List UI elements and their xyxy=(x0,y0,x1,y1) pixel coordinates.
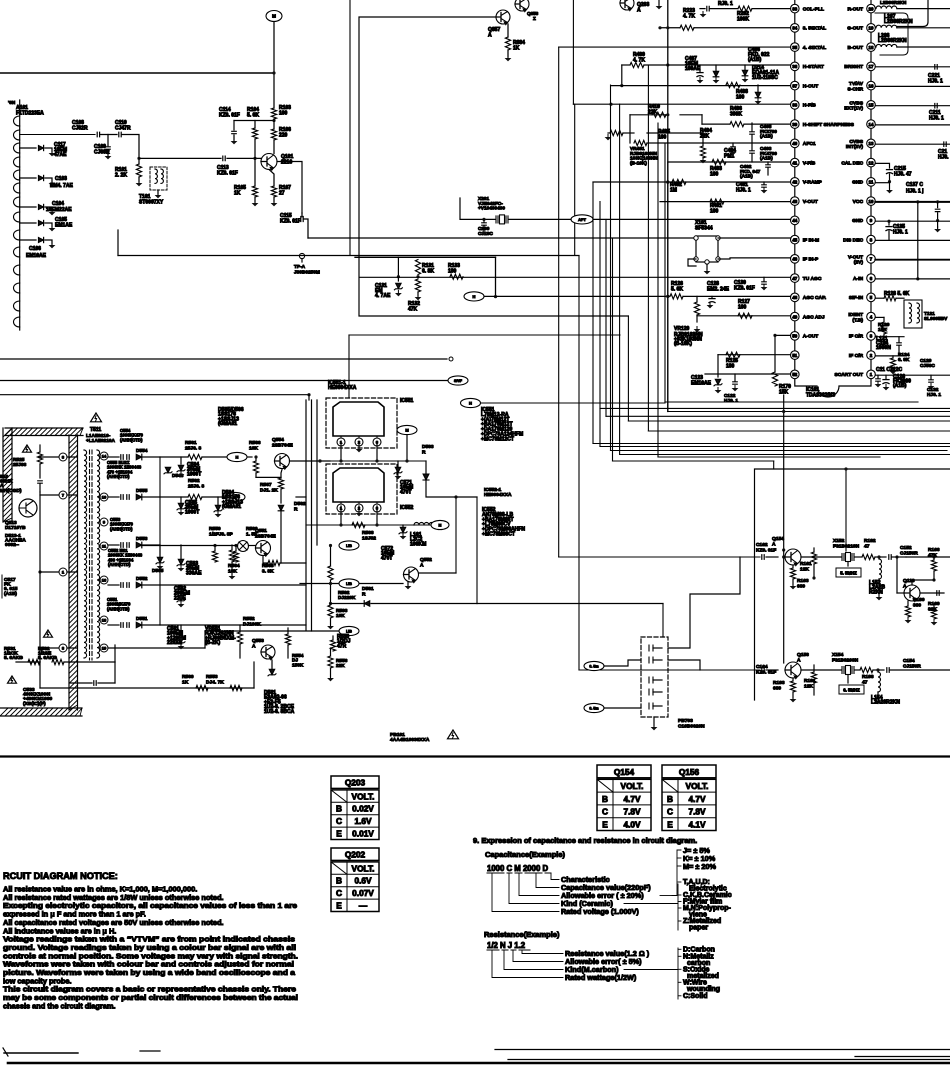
transistor Q858 xyxy=(515,0,529,11)
tuner pin 2 xyxy=(14,130,20,140)
tuner pin 7 xyxy=(14,197,20,207)
svg-text:HE0004XXA: HE0004XXA xyxy=(484,492,512,498)
svg-text:L2B98R2KN: L2B98R2KN xyxy=(884,19,913,25)
svg-text:C10B0020N: C10B0020N xyxy=(678,723,705,729)
svg-text:40: 40 xyxy=(792,141,797,146)
svg-text:D551: D551 xyxy=(136,616,148,622)
svg-text:TP-A: TP-A xyxy=(294,264,306,270)
svg-text:14: 14 xyxy=(102,454,107,459)
voltage regulator IC551 xyxy=(326,398,397,448)
svg-text:B: B xyxy=(667,794,673,804)
svg-text:IF C/R: IF C/R xyxy=(849,334,864,340)
svg-text:D:Carbon: D:Carbon xyxy=(683,947,715,954)
svg-text:100: 100 xyxy=(736,95,745,101)
wire PB703 to C164 xyxy=(668,660,700,670)
tuner pin 3 xyxy=(14,143,20,153)
svg-text:(A1B): (A1B) xyxy=(4,591,17,597)
svg-text:H-SHIFT SHARPNESS: H-SHIFT SHARPNESS xyxy=(803,122,855,128)
IC101 pin 48 AGC CAP. xyxy=(791,293,800,302)
capacitor C122 xyxy=(733,382,738,384)
svg-text:B-OUT: B-OUT xyxy=(848,45,863,51)
transformer pins left xyxy=(40,456,59,458)
IC101 pin 5 SIF-IN xyxy=(867,293,876,302)
svg-text:100: 100 xyxy=(738,305,747,311)
svg-text:L2B98R2KN: L2B98R2KN xyxy=(878,38,907,44)
svg-text:(AHH(CTD): (AHH(CTD) xyxy=(107,474,130,479)
wire H-START row xyxy=(622,64,630,66)
warning triangle PB101 xyxy=(448,730,459,739)
svg-text:X154: X154 xyxy=(832,652,844,658)
svg-text:R: R xyxy=(422,449,426,455)
svg-text:LIB: LIB xyxy=(346,630,352,634)
connector oval M2 xyxy=(397,425,417,434)
legend line Characteristic xyxy=(551,874,559,880)
svg-text:C:Solid: C:Solid xyxy=(683,993,708,1000)
svg-text:4. 43XTAL: 4. 43XTAL xyxy=(803,45,826,51)
diode row C117 xyxy=(20,147,36,149)
svg-text:100: 100 xyxy=(710,209,719,215)
svg-text:1U2-118SC: 1U2-118SC xyxy=(752,75,778,81)
transformer T511 windings xyxy=(84,450,87,658)
wire AFC1 row xyxy=(647,142,703,144)
tuner A101 connector rail xyxy=(19,100,21,330)
svg-text:390K: 390K xyxy=(730,112,742,118)
svg-text:CJ56C: CJ56C xyxy=(920,363,935,369)
svg-text:'0N: '0N xyxy=(8,100,16,106)
svg-text:LIB: LIB xyxy=(346,544,352,548)
svg-text:PB703: PB703 xyxy=(678,718,693,724)
wire TV/AV pin16 xyxy=(875,85,950,87)
svg-text:1K: 1K xyxy=(182,679,189,685)
svg-text:R166: R166 xyxy=(928,547,940,553)
wire to Q552 xyxy=(476,497,478,604)
svg-text:TDA8362/N3: TDA8362/N3 xyxy=(806,393,835,399)
op-amp U1 / IC101 TDA8362 body rails xyxy=(794,0,796,375)
svg-text:CAL DEC: CAL DEC xyxy=(841,160,863,166)
diode row C104 xyxy=(20,206,36,208)
svg-text:Q202: Q202 xyxy=(345,849,366,859)
svg-text:17: 17 xyxy=(869,64,874,69)
svg-text:180: 180 xyxy=(726,364,735,370)
svg-text:25J68: 25J68 xyxy=(13,462,27,468)
svg-text:B: B xyxy=(336,804,342,814)
wire Q101 base row xyxy=(139,157,221,159)
svg-text:10: 10 xyxy=(869,199,874,204)
transistor Q553 xyxy=(261,645,275,659)
capacitor C572 xyxy=(400,527,406,533)
wire crystal feed xyxy=(845,469,847,551)
svg-text:0.6V: 0.6V xyxy=(354,876,372,886)
IC101 pin 17 BRIGHT xyxy=(867,62,876,71)
wire V-OUT pin7 xyxy=(875,259,950,261)
tuner pin 12 xyxy=(14,283,20,293)
IC101 pin 51 xyxy=(791,351,800,360)
svg-text:R193: R193 xyxy=(773,680,785,686)
wire TP-A line xyxy=(118,255,579,257)
svg-text:IC552: IC552 xyxy=(400,505,414,511)
svg-text:COL-PLL: COL-PLL xyxy=(803,6,824,12)
inductor L154 xyxy=(878,672,881,692)
svg-text:R198: R198 xyxy=(862,674,874,680)
wire y359 end oval xyxy=(449,357,453,361)
svg-text:A: A xyxy=(637,8,641,14)
svg-text:0.02V: 0.02V xyxy=(352,804,374,814)
svg-text:R552: R552 xyxy=(243,616,255,622)
svg-text:CJ150R: CJ150R xyxy=(900,550,918,556)
wire A-IN pin6 xyxy=(875,278,950,280)
IC101 pin 41 V-F/B xyxy=(791,158,800,167)
transistor Q101 xyxy=(261,154,277,170)
voltage table Q154 xyxy=(597,765,651,778)
svg-text:BRIGHT: BRIGHT xyxy=(844,64,863,70)
svg-text:Rated voltage (1.000V): Rated voltage (1.000V) xyxy=(561,907,639,916)
svg-text:47: 47 xyxy=(792,276,797,281)
potentiometer VR120 xyxy=(696,296,698,302)
svg-text:DJ1. 2K: DJ1. 2K xyxy=(260,487,278,493)
svg-text:49: 49 xyxy=(792,314,797,319)
svg-text:R2KN: R2KN xyxy=(869,589,883,595)
svg-text:45: 45 xyxy=(792,237,797,242)
isolation barrier hatched bottom xyxy=(0,708,82,716)
wire bus corner down to sound box xyxy=(773,461,775,469)
svg-text:F31B0200N: F31B0200N xyxy=(832,657,859,663)
svg-text:MH(CGD): MH(CGD) xyxy=(0,488,22,494)
isolation barrier hatched top xyxy=(5,428,83,436)
svg-text:4AA4B10636XXA: 4AA4B10636XXA xyxy=(390,737,430,743)
svg-text:Q154: Q154 xyxy=(614,767,635,777)
svg-text:51: 51 xyxy=(792,353,797,358)
svg-text:RCUIT DIAGRAM NOTICE:: RCUIT DIAGRAM NOTICE: xyxy=(3,871,118,881)
wire SIF-IN pin5 resistor R128 xyxy=(875,297,884,299)
svg-text:EM2. 24E: EM2. 24E xyxy=(707,287,730,293)
svg-text:7.8V: 7.8V xyxy=(688,807,706,817)
svg-text:20: 20 xyxy=(869,6,874,11)
svg-text:(B-10K): (B-10K) xyxy=(630,160,647,166)
svg-text:CVBS: CVBS xyxy=(849,100,863,106)
legend line Capacitance value(220pF) xyxy=(536,874,559,888)
warning triangle bottom left xyxy=(8,676,17,683)
svg-text:47K: 47K xyxy=(928,552,937,558)
svg-text:48: 48 xyxy=(792,295,797,300)
IC101 pin 10 VCC xyxy=(867,197,876,206)
IC101 pin 6 A-IN xyxy=(867,274,876,283)
svg-text:22K: 22K xyxy=(700,134,710,140)
svg-text:A: A xyxy=(420,562,424,568)
wire sound box xyxy=(755,469,950,700)
svg-text:1U2-6. 8BCA: 1U2-6. 8BCA xyxy=(264,709,295,715)
resistor R131 xyxy=(415,260,420,275)
isolation barrier hatched left xyxy=(3,428,12,522)
svg-text:EXT(1V): EXT(1V) xyxy=(844,106,863,112)
svg-text:50: 50 xyxy=(792,334,797,339)
svg-text:(2V): (2V) xyxy=(854,260,864,266)
wire C131 top xyxy=(355,256,496,258)
wire bus horizontals right xyxy=(665,401,918,403)
svg-text:27: 27 xyxy=(279,191,285,197)
svg-text:C: C xyxy=(667,807,673,817)
svg-text:44: 44 xyxy=(792,218,797,223)
svg-text:R: R xyxy=(294,506,298,512)
wire H-OUT row xyxy=(611,85,791,87)
svg-text:Q113: Q113 xyxy=(903,578,915,584)
warning triangle small left xyxy=(23,445,32,452)
IC101 pin 34 3. 58XTAL xyxy=(791,24,800,33)
svg-text:(T.B): (T.B) xyxy=(852,317,863,323)
svg-text:1K: 1K xyxy=(513,46,520,52)
svg-text:38: 38 xyxy=(792,103,797,108)
svg-text:+V10400400: +V10400400 xyxy=(478,206,505,212)
svg-text:1M: 1M xyxy=(670,188,677,194)
connector oval H2 xyxy=(461,398,481,407)
svg-text:D565: D565 xyxy=(152,568,164,574)
svg-text:390: 390 xyxy=(913,602,921,608)
wire coil frame corner xyxy=(897,0,928,27)
svg-text:+MC78M12CT: +MC78M12CT xyxy=(481,436,515,442)
IC101 bottom edge with notch xyxy=(795,375,871,398)
svg-text:IDENT: IDENT xyxy=(848,312,863,318)
svg-text:1000T: 1000T xyxy=(187,471,202,477)
svg-text:10: 10 xyxy=(102,495,107,500)
svg-text:1/2 N J 1.2: 1/2 N J 1.2 xyxy=(487,941,526,950)
svg-text:5. 6K: 5. 6K xyxy=(247,113,259,119)
IC101 pin 37 H-OUT xyxy=(791,81,800,90)
connector AFT xyxy=(571,215,593,224)
svg-text:R564: R564 xyxy=(228,563,240,569)
IC101 pin 50 A-OUT xyxy=(791,332,800,341)
wire vertical x573 xyxy=(572,0,574,104)
svg-text:2SB764E: 2SB764E xyxy=(272,442,294,448)
svg-text:4. 7K: 4. 7K xyxy=(633,58,645,64)
resistor R132 xyxy=(415,279,420,292)
svg-text:16: 16 xyxy=(102,578,107,583)
svg-text:HJ0. 47: HJ0. 47 xyxy=(894,172,912,178)
svg-text:(AHH(CTD): (AHH(CTD) xyxy=(120,437,143,442)
bottom main line xyxy=(8,1062,950,1065)
wire vertical x350 xyxy=(349,0,351,256)
svg-text:VOLT.: VOLT. xyxy=(352,791,375,801)
tuner pin 4 xyxy=(14,157,20,167)
tuner pin 9 xyxy=(14,230,20,240)
svg-text:HJ0. 1: HJ0. 1 xyxy=(736,188,751,194)
diode D565b xyxy=(157,557,163,563)
IC101 pin 15 CVBS EXT(1V) xyxy=(867,101,876,110)
wire row 585 xyxy=(160,584,306,586)
svg-text:100: 100 xyxy=(710,172,719,178)
svg-text:(B-10K): (B-10K) xyxy=(674,341,692,347)
connector oval H3 xyxy=(227,452,247,461)
svg-text:A-OUT: A-OUT xyxy=(803,334,818,340)
svg-text:19: 19 xyxy=(102,646,107,651)
svg-text:3. 58XTAL: 3. 58XTAL xyxy=(803,26,826,32)
svg-text:E: E xyxy=(336,901,342,911)
svg-text:IC551: IC551 xyxy=(400,398,414,404)
svg-text:C152: C152 xyxy=(900,545,912,551)
wire IF C/R pin2 xyxy=(875,355,904,357)
svg-text:A: A xyxy=(252,643,256,649)
svg-text:VOLT.: VOLT. xyxy=(621,781,644,791)
wire IF IN-M row xyxy=(718,237,791,239)
svg-text:SIF-IN: SIF-IN xyxy=(849,295,864,301)
svg-text:TU AGC: TU AGC xyxy=(803,276,822,282)
wire DIS DEC pin8 xyxy=(875,239,950,241)
svg-text:HJ0.: HJ0. xyxy=(938,155,949,161)
IC101 pin 12 CAL DEC xyxy=(867,158,876,167)
svg-text:R-OUT: R-OUT xyxy=(848,6,863,12)
svg-text:C103: C103 xyxy=(55,176,67,182)
svg-text:4.7V: 4.7V xyxy=(688,794,706,804)
connector M top xyxy=(266,11,282,22)
transistor Q551 xyxy=(256,541,271,556)
wire rows to bus xyxy=(296,496,306,498)
filter PB703 xyxy=(641,637,668,717)
svg-text:(AHH(CTD): (AHH(CTD) xyxy=(110,526,133,531)
svg-text:10K: 10K xyxy=(336,613,345,619)
connector oval 6.5m a xyxy=(584,661,604,670)
svg-text:7.8V: 7.8V xyxy=(623,807,641,817)
svg-text:DIS DEC: DIS DEC xyxy=(843,237,863,243)
svg-text:D552: D552 xyxy=(136,576,148,582)
svg-text:EM10AE: EM10AE xyxy=(26,253,47,259)
svg-text:EM1AE: EM1AE xyxy=(55,223,73,229)
wire V-F/B row xyxy=(668,161,791,163)
svg-text:6. 5MHZ: 6. 5MHZ xyxy=(843,688,860,693)
svg-text:R559: R559 xyxy=(209,526,221,532)
svg-text:100KM: 100KM xyxy=(410,541,426,547)
IC101 pin 14 xyxy=(867,120,876,129)
svg-text:5. 6AKG: 5. 6AKG xyxy=(38,655,57,661)
wire ps bus verticals xyxy=(305,400,307,630)
tuner pin 8 xyxy=(14,212,20,222)
wire AGC CAP row xyxy=(484,295,669,297)
svg-text:1. 5K: 1. 5K xyxy=(246,531,258,537)
svg-text:(GMA01: (GMA01 xyxy=(218,421,237,427)
wire IC552 out row xyxy=(306,524,433,526)
wire Q552 row xyxy=(300,583,403,585)
diode D553 xyxy=(136,542,142,548)
voltage table Q202 xyxy=(331,848,379,860)
svg-text:V-RAMP: V-RAMP xyxy=(803,180,823,186)
svg-text:Z: Z xyxy=(533,16,536,21)
svg-text:4.1V: 4.1V xyxy=(688,820,706,830)
svg-text:VOLT.: VOLT. xyxy=(352,863,375,873)
svg-text:A: A xyxy=(797,657,801,663)
svg-text:C154: C154 xyxy=(903,658,915,664)
svg-text:R568: R568 xyxy=(362,530,374,536)
IC101 pin 16 TV/AV S-CHR xyxy=(867,81,876,90)
svg-text:CJ82R: CJ82R xyxy=(72,126,88,132)
svg-text:46: 46 xyxy=(792,257,797,262)
legend line Allowable error ( ± 20%) xyxy=(519,874,559,896)
IC101 pin 11 GND xyxy=(867,178,876,187)
svg-text:12: 12 xyxy=(869,160,874,165)
wire R125 row pin51 xyxy=(718,354,791,356)
svg-text:DJ220K: DJ220K xyxy=(338,595,356,601)
svg-text:ST0007XY: ST0007XY xyxy=(139,200,164,206)
svg-text:HJ0. 1: HJ0. 1 xyxy=(893,230,908,236)
svg-text:X152: X152 xyxy=(833,538,845,544)
svg-text:10K: 10K xyxy=(249,445,258,451)
svg-text:Q156: Q156 xyxy=(797,652,809,658)
svg-text:35: 35 xyxy=(792,45,797,50)
svg-text:V-F/B: V-F/B xyxy=(803,160,816,166)
svg-text:220: 220 xyxy=(279,133,288,139)
svg-text:3. 3K: 3. 3K xyxy=(262,568,274,574)
svg-text:KZ0. 01F: KZ0. 01F xyxy=(217,171,238,177)
svg-text:IF C/R: IF C/R xyxy=(849,353,864,359)
svg-text:(A1B): (A1B) xyxy=(893,383,907,389)
svg-text:10K: 10K xyxy=(878,327,887,333)
wire C115 to IF IN-M pin 45 xyxy=(303,219,308,238)
legend line Rated voltage (1.000V) xyxy=(492,874,559,912)
svg-text:C106: C106 xyxy=(29,246,41,252)
transformer pins right xyxy=(100,452,108,460)
tuner pin 5 xyxy=(14,170,20,180)
svg-text:A: A xyxy=(903,583,907,589)
svg-text:6. 8K: 6. 8K xyxy=(898,357,910,363)
svg-text:R569: R569 xyxy=(182,674,194,680)
inductor L152 xyxy=(879,559,882,579)
IC101 pin 47 TU AGC xyxy=(791,274,800,283)
svg-text:R192: R192 xyxy=(864,538,876,544)
IC101 pin 1 SCART OUT xyxy=(867,370,876,379)
wire row 625 xyxy=(160,624,306,626)
wire SCART OUT pin1 xyxy=(875,374,950,376)
IC101 pin 35 4. 43XTAL xyxy=(791,43,800,52)
svg-text:100AE: 100AE xyxy=(685,66,701,72)
svg-text:D593: D593 xyxy=(422,444,434,450)
wire V-OUT row xyxy=(660,201,791,203)
svg-text:EM4. 7AE: EM4. 7AE xyxy=(50,183,73,189)
wire H-F/B row xyxy=(573,103,790,105)
svg-text:150K: 150K xyxy=(292,662,304,668)
svg-text:Q553: Q553 xyxy=(252,638,264,644)
svg-text:0002--: 0002-- xyxy=(5,542,19,548)
transistor Q552 xyxy=(404,567,419,582)
svg-text:15: 15 xyxy=(869,103,874,108)
svg-text:H-OUT: H-OUT xyxy=(803,83,818,89)
diode D555 xyxy=(136,494,142,500)
svg-text:D562: D562 xyxy=(294,501,306,507)
transformer T121 xyxy=(904,300,922,328)
svg-text:100K: 100K xyxy=(737,17,749,23)
legend line Rated wattage(1/2W) xyxy=(492,951,563,978)
svg-text:IF IN-M: IF IN-M xyxy=(803,237,819,243)
connector oval M3 xyxy=(225,492,245,501)
svg-text:Q203: Q203 xyxy=(345,777,366,787)
voltage table Q156 xyxy=(662,765,716,778)
svg-text:10K: 10K xyxy=(228,568,237,574)
wire row 545 xyxy=(140,545,238,547)
IC101 pin 4 IDENT (T.B) xyxy=(867,312,876,321)
svg-text:G-OUT: G-OUT xyxy=(847,26,863,32)
svg-text:D591: D591 xyxy=(362,586,374,592)
svg-text:6. 5m: 6. 5m xyxy=(589,665,598,669)
svg-text:43: 43 xyxy=(792,199,797,204)
svg-text:(A1B): (A1B) xyxy=(760,134,773,140)
wire primary loop xyxy=(39,492,41,662)
svg-text:B: B xyxy=(336,876,342,886)
svg-text:0.01V: 0.01V xyxy=(352,829,374,839)
svg-text:39: 39 xyxy=(792,122,797,127)
transformer T101 xyxy=(150,167,167,190)
svg-text:100: 100 xyxy=(658,135,667,141)
bottom short line xyxy=(3,1048,8,1056)
svg-text:(AHH(CTB): (AHH(CTB) xyxy=(107,606,130,611)
svg-text:14: 14 xyxy=(869,122,874,127)
IC101 pin 3 IF C/R xyxy=(867,332,876,341)
svg-text:T511: T511 xyxy=(90,427,101,433)
legend line Kind (Ceramic) xyxy=(509,874,559,904)
